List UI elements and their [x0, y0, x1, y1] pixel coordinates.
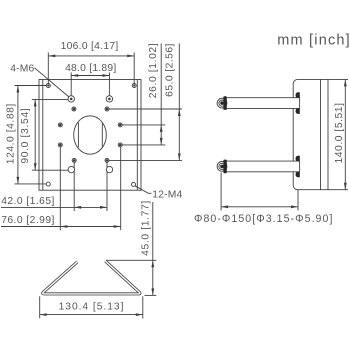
- lower strap mount tabs: [296, 156, 300, 178]
- upper clamp bolt head: [217, 96, 227, 110]
- svg-text:26.0 [1.02]: 26.0 [1.02]: [148, 43, 159, 98]
- svg-text:65.0 [2.56]: 65.0 [2.56]: [164, 43, 175, 97]
- svg-text:42.0 [1.65]: 42.0 [1.65]: [1, 196, 55, 207]
- dim 48.0 [1.89]: [65, 63, 116, 99]
- svg-text:mm [inch]: mm [inch]: [277, 32, 350, 48]
- side plate: [293, 79, 328, 189]
- svg-text:76.0 [2.99]: 76.0 [2.99]: [1, 215, 55, 226]
- dim 42.0 [1.65]: [1, 160, 107, 211]
- lower clamp bolt head: [217, 160, 227, 174]
- svg-text:12-M4: 12-M4: [152, 189, 182, 200]
- upper strap mount tabs: [296, 92, 300, 114]
- svg-text:45.0 [1.77]: 45.0 [1.77]: [140, 200, 151, 256]
- svg-text:124.0 [4.88]: 124.0 [4.88]: [6, 103, 17, 164]
- dim 76.0 [2.99]: [1, 145, 121, 230]
- corner holes 4x M4: [46, 84, 136, 187]
- dim 65.0 [2.56]: [107, 43, 182, 160]
- front plate outline: [39, 80, 141, 191]
- svg-text:106.0 [4.17]: 106.0 [4.17]: [61, 41, 119, 52]
- dim 130.4 [5.13]: [40, 296, 143, 318]
- dim 124.0 [4.88]: [6, 86, 49, 184]
- dim 26.0 [1.02]: [120, 43, 165, 145]
- center hole (double-D cutout): [74, 116, 107, 154]
- svg-text:4-M6: 4-M6: [10, 64, 34, 75]
- lower clamp strap: [227, 161, 300, 172]
- upper clamp strap: [227, 98, 300, 109]
- dim 90.0 [3.54]: [20, 99, 71, 170]
- dim pole diameter range: [194, 173, 334, 226]
- label 4-M6 with leader: [10, 64, 71, 99]
- svg-text:130.4 [5.13]: 130.4 [5.13]: [59, 301, 125, 312]
- svg-text:48.0 [1.89]: 48.0 [1.89]: [65, 63, 116, 74]
- dim 106.0 [4.17]: [48, 41, 134, 85]
- svg-text:140.0 [5.51]: 140.0 [5.51]: [334, 103, 345, 164]
- label 12-M4 with leader: [135, 186, 183, 201]
- units note mm [inch]: [277, 32, 350, 48]
- dim 140.0 [5.51]: [328, 79, 348, 189]
- M6 holes 4x: [68, 96, 113, 173]
- dim 45.0 [1.77]: [107, 200, 157, 295]
- mid M4 holes 8x: [58, 107, 122, 162]
- svg-text:90.0 [3.54]: 90.0 [3.54]: [20, 108, 31, 164]
- svg-text:Φ80-Φ150[Φ3.15-Φ5.90]: Φ80-Φ150[Φ3.15-Φ5.90]: [194, 213, 334, 225]
- bottom view bent strap: [43, 261, 140, 294]
